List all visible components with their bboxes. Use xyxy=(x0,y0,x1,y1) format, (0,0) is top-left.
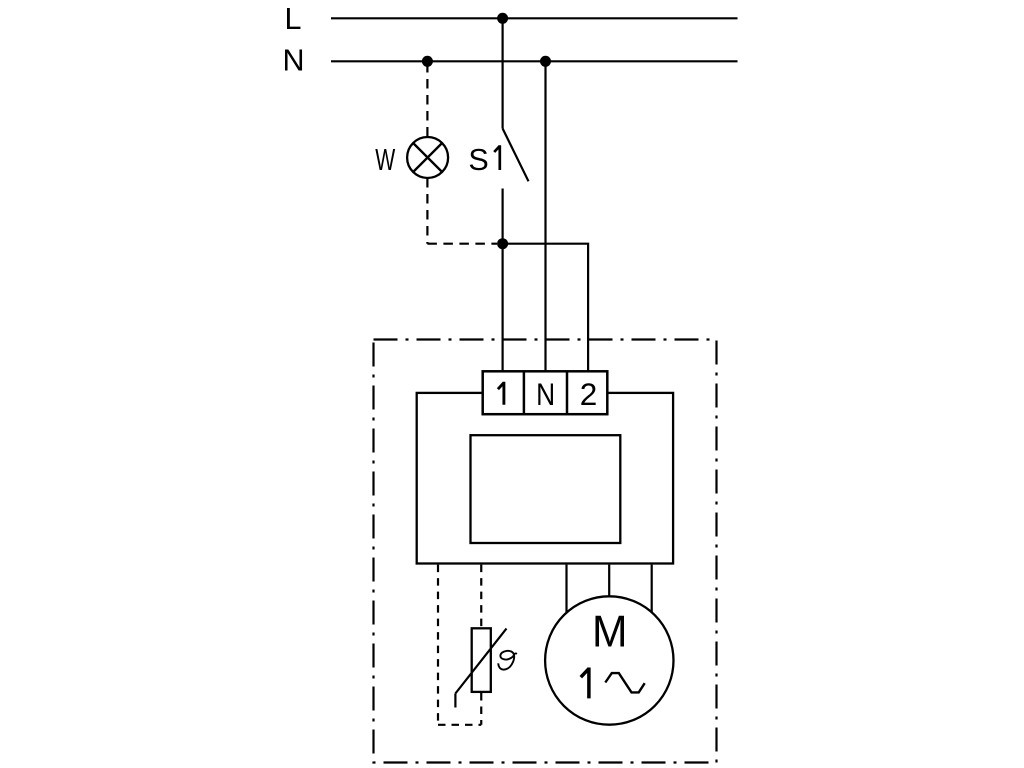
wire dashed from lamp to node xyxy=(426,178,428,244)
switch S1 blade xyxy=(503,129,529,182)
label S1 digit xyxy=(494,145,500,170)
lamp W circle xyxy=(407,137,448,178)
wire N supply line xyxy=(331,60,738,62)
thermistor foot xyxy=(454,694,456,708)
node junction on N line (motor tap) xyxy=(540,56,551,67)
node junction below switch xyxy=(497,238,508,249)
enclosure dash-dot boundary xyxy=(374,340,717,763)
thermistor theta symbol xyxy=(498,651,517,670)
wire motor left xyxy=(565,565,567,613)
wire N down to terminal N xyxy=(544,61,546,372)
terminal label 1 xyxy=(498,382,504,405)
motor label 1 xyxy=(581,668,589,699)
svg-text:S: S xyxy=(468,143,488,177)
wire dashed horizontal into junction xyxy=(427,243,497,245)
svg-text:2: 2 xyxy=(580,376,598,412)
wire L supply line xyxy=(331,17,738,19)
terminal divider 1|N xyxy=(523,371,526,414)
thermistor body xyxy=(472,628,491,692)
svg-text:N: N xyxy=(536,376,555,412)
wire junction right and down to terminal 2 xyxy=(503,244,588,372)
device display window xyxy=(471,435,621,543)
device controller rectangle xyxy=(417,393,673,564)
wire dashed sensor right lower xyxy=(480,693,482,725)
wire motor middle xyxy=(608,565,610,597)
wire dashed sensor right upper xyxy=(480,565,482,627)
wire dashed from N to lamp W xyxy=(426,63,428,137)
node junction on L line xyxy=(497,13,508,24)
svg-text:L: L xyxy=(285,2,302,36)
wire dashed sensor left xyxy=(437,565,439,725)
svg-text:M: M xyxy=(592,607,628,657)
motor M1 circle xyxy=(545,596,673,724)
wire motor right xyxy=(651,565,653,613)
thermistor diagonal xyxy=(455,629,506,694)
motor sine symbol xyxy=(605,673,644,692)
node junction on N line (lamp tap) xyxy=(422,56,433,67)
terminal block outline xyxy=(483,371,608,414)
wire junction down to terminal 1 xyxy=(502,244,504,372)
svg-text:N: N xyxy=(282,43,304,77)
terminal divider N|2 xyxy=(566,371,569,414)
switch S1 lower wire xyxy=(502,189,504,244)
svg-text:W: W xyxy=(375,143,395,177)
wire dashed sensor bottom xyxy=(438,724,481,726)
lamp W cross xyxy=(413,143,442,172)
switch S1 upper wire xyxy=(502,18,504,128)
